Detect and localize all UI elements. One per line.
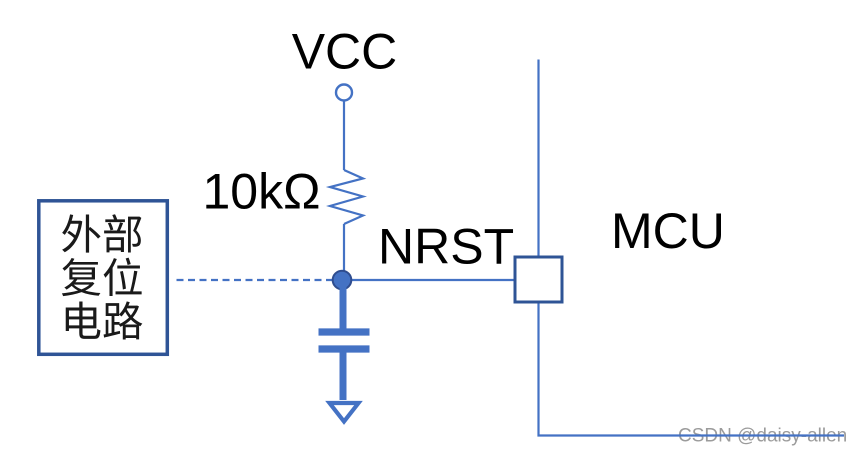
- svg-text:10kΩ: 10kΩ: [203, 164, 321, 220]
- capacitor C1 plate 2: [319, 345, 370, 352]
- capacitor C1 bottom lead (thick): [340, 353, 347, 401]
- terminal VCC (open circle): [336, 85, 352, 101]
- wire VCC terminal to resistor: [343, 101, 345, 170]
- dashed wire from reset box to node: [177, 279, 335, 281]
- ground (open arrow): [330, 403, 359, 422]
- box label char 电: [66, 302, 101, 339]
- svg-text:NRST: NRST: [378, 219, 514, 275]
- MCU boundary wire (vertical + bottom horizontal): [539, 60, 845, 436]
- svg-text:VCC: VCC: [292, 24, 398, 80]
- svg-text:MCU: MCU: [611, 203, 725, 259]
- external reset circuit box: [39, 201, 168, 354]
- box label char 路: [104, 301, 143, 339]
- wire resistor to node: [343, 224, 345, 274]
- box label char 部: [104, 214, 141, 252]
- capacitor C1 plate 1: [319, 328, 370, 335]
- box label char 外: [62, 214, 101, 252]
- capacitor C1 top lead (thick): [340, 282, 347, 331]
- wire node to MCU pin NRST: [350, 279, 514, 281]
- node junction dot: [333, 271, 352, 290]
- box label char 复: [62, 258, 101, 296]
- MCU pin square: [515, 257, 562, 302]
- resistor R1 zigzag: [330, 170, 363, 224]
- box label char 位: [104, 258, 142, 296]
